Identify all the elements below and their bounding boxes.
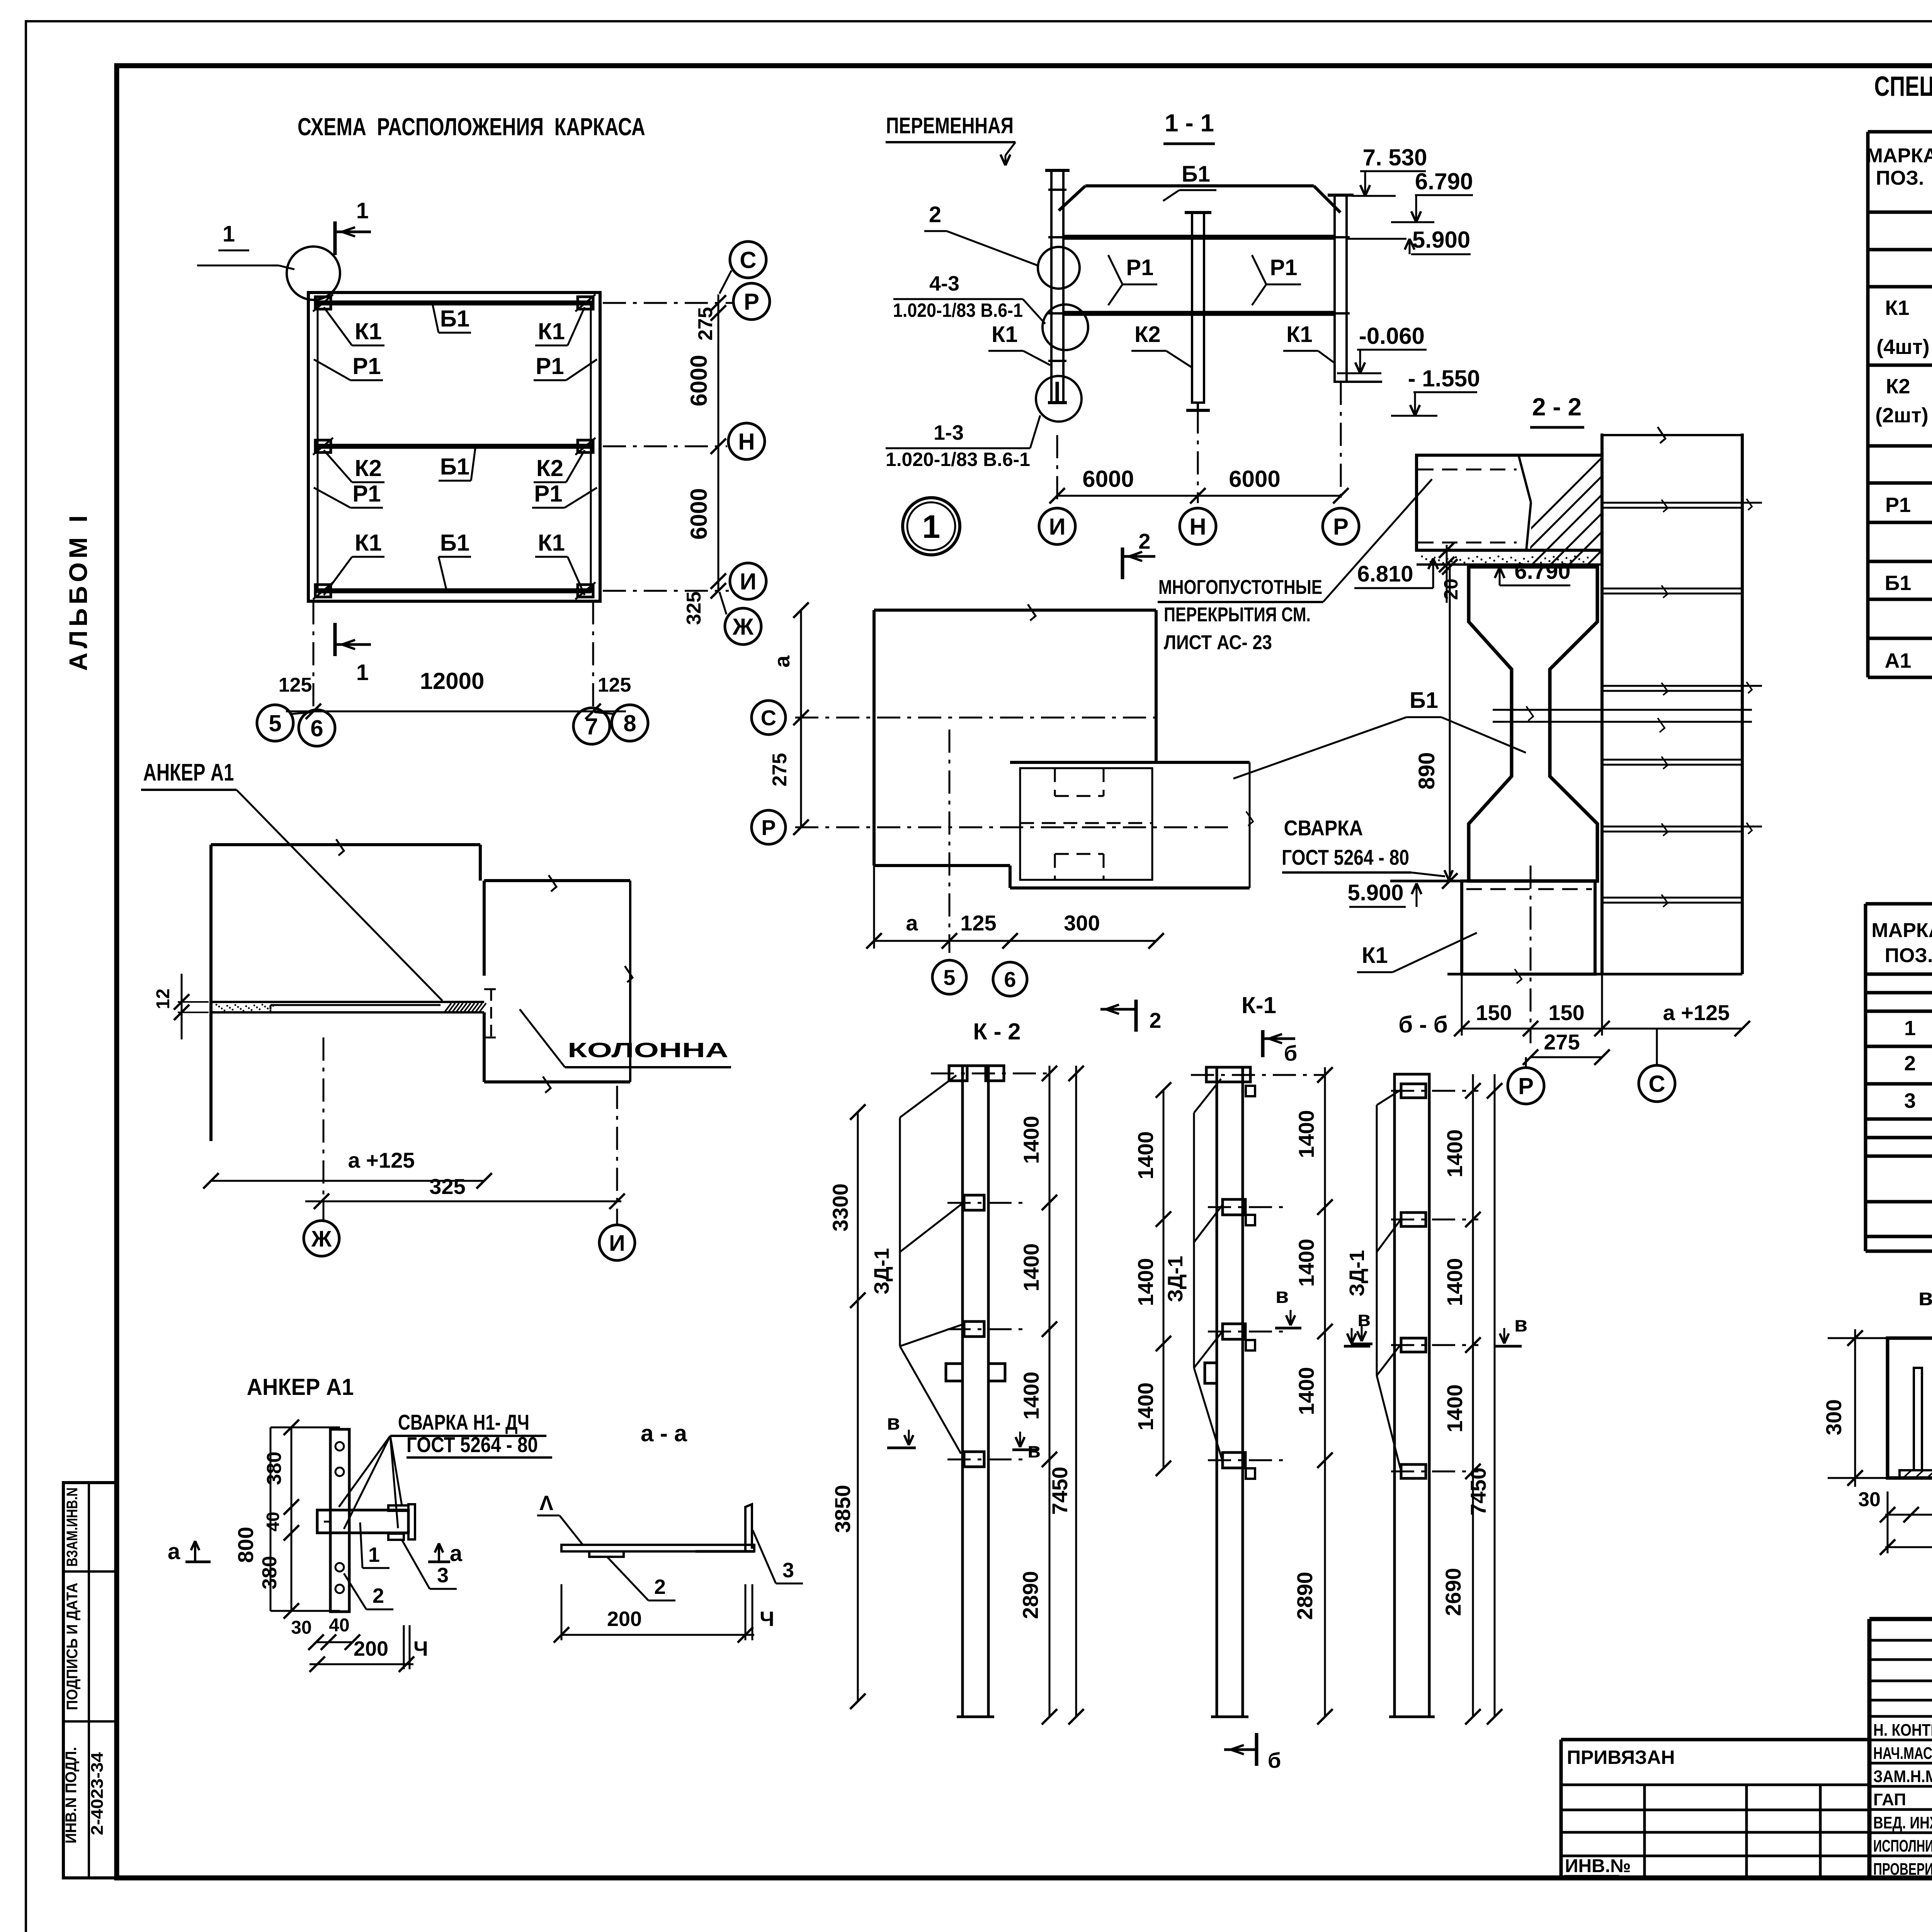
label b-b heading	[1398, 1012, 1447, 1037]
album label	[64, 512, 92, 671]
spec table header texts	[1866, 145, 1932, 201]
label K-1 heading	[1242, 992, 1276, 1018]
svg-text:Б1: Б1	[1885, 571, 1912, 595]
dim 20 vertical	[1439, 543, 1462, 603]
svg-text:Р1: Р1	[352, 353, 381, 379]
svg-text:СВАРКА Н1- ДЧ: СВАРКА Н1- ДЧ	[398, 1410, 529, 1434]
svg-text:ГАП: ГАП	[1873, 1790, 1906, 1809]
svg-text:3: 3	[1904, 1089, 1916, 1112]
svg-text:МАРКА,: МАРКА,	[1871, 919, 1932, 942]
svg-text:И: И	[609, 1231, 625, 1256]
wall in section 2-2	[1602, 427, 1762, 974]
svg-text:СВАРКА: СВАРКА	[1284, 816, 1363, 840]
axis circle P (section 1-1)	[1323, 508, 1359, 544]
axis circle H	[728, 423, 765, 459]
plan detail slab outline	[874, 604, 1156, 888]
column b-b bar	[1389, 1074, 1435, 1717]
svg-text:150: 150	[1476, 1000, 1512, 1025]
svg-text:1 - 1: 1 - 1	[1165, 109, 1214, 137]
svg-text:ПОЗ.: ПОЗ.	[1885, 944, 1932, 967]
svg-text:в: в	[887, 1410, 900, 1434]
plan right dimension chain	[683, 294, 726, 625]
svg-text:СХЕМА РАСПОЛОЖЕНИЯ КАРКАСА: СХЕМА РАСПОЛОЖЕНИЯ КАРКАСА	[298, 113, 645, 141]
svg-text:ЗД-1: ЗД-1	[1164, 1256, 1187, 1302]
horizontal break lines	[1493, 706, 1752, 732]
svg-text:К1: К1	[1362, 943, 1388, 968]
base line under section 2-2	[1447, 969, 1742, 983]
svg-text:А1: А1	[1884, 649, 1911, 672]
svg-text:4-3: 4-3	[929, 272, 959, 295]
axis circle 8	[594, 705, 648, 741]
column K2 axis H (section 1-1)	[1185, 213, 1211, 410]
svg-text:Р1: Р1	[1270, 255, 1298, 280]
section mark b lower	[1263, 1030, 1297, 1065]
axis circle H (section 1-1)	[1180, 508, 1216, 544]
svg-text:в: в	[1514, 1312, 1527, 1336]
svg-text:С: С	[1648, 1071, 1665, 1097]
plan detail axes	[795, 718, 1229, 953]
svg-text:8: 8	[623, 711, 636, 736]
K-2 left dims 3300/3850	[828, 1104, 866, 1709]
axis circle P (plan detail)	[752, 810, 786, 844]
svg-text:ПРОВЕРИЛ: ПРОВЕРИЛ	[1873, 1860, 1932, 1879]
K-2 right dims 1400s and 2890	[1018, 1066, 1057, 1725]
svg-text:К1: К1	[992, 322, 1018, 347]
v-v bottom plate (hatched)	[1900, 1470, 1932, 1478]
svg-text:К1: К1	[538, 318, 565, 344]
svg-text:(2шт): (2шт)	[1875, 404, 1928, 427]
svg-text:ПОЗ.: ПОЗ.	[1876, 167, 1924, 189]
signature rows text	[1873, 1719, 1932, 1879]
axis circle 6	[299, 710, 335, 746]
level 5.900 (section 2-2)	[1347, 880, 1469, 907]
column K1 axis P (section 1-1)	[1328, 195, 1354, 382]
svg-text:2: 2	[1904, 1052, 1916, 1075]
svg-text:1400: 1400	[1019, 1243, 1043, 1292]
svg-text:2: 2	[372, 1584, 384, 1607]
svg-text:а: а	[450, 1541, 463, 1566]
svg-text:К-1: К-1	[1242, 992, 1276, 1018]
svg-text:890: 890	[1414, 752, 1439, 790]
column (detail) outline	[484, 875, 633, 1093]
label R1 left	[1108, 255, 1157, 305]
svg-text:АНКЕР А1: АНКЕР А1	[143, 759, 234, 786]
a-a dim 200	[554, 1584, 774, 1643]
svg-text:(4шт): (4шт)	[1876, 335, 1929, 359]
svg-text:7450: 7450	[1466, 1468, 1490, 1516]
svg-text:Н: Н	[738, 429, 755, 455]
svg-text:2890: 2890	[1018, 1571, 1043, 1619]
section mark 1 bottom	[335, 623, 371, 685]
detail circle ref 1	[197, 221, 340, 300]
svg-text:в: в	[1357, 1306, 1371, 1331]
detail circles on column I	[1036, 247, 1088, 422]
hidden column outline (dashed)	[1020, 768, 1152, 880]
svg-text:125: 125	[598, 674, 631, 696]
svg-text:2: 2	[1149, 1008, 1161, 1032]
label Peremennaya (variable)	[886, 113, 1015, 165]
svg-text:1.020-1/83 В.6-1: 1.020-1/83 В.6-1	[893, 299, 1023, 321]
svg-text:6000: 6000	[1229, 466, 1280, 492]
svg-text:6.790: 6.790	[1514, 559, 1570, 584]
svg-text:а: а	[770, 655, 794, 668]
section v-v title	[1918, 1284, 1932, 1311]
column b-b embedded plates	[1391, 1084, 1478, 1478]
plan axis lines right	[603, 303, 732, 591]
svg-text:Б1: Б1	[1410, 688, 1438, 713]
axis circle 6 (plan detail)	[993, 962, 1027, 996]
svg-text:12: 12	[153, 988, 173, 1009]
plan bottom axis lines	[313, 601, 593, 713]
axis circle I (anchor detail)	[599, 1225, 635, 1260]
svg-text:К1: К1	[355, 318, 382, 344]
section a-a title	[641, 1420, 687, 1446]
svg-text:К2: К2	[536, 455, 563, 481]
v-v bottom dims	[1858, 1485, 1932, 1555]
svg-text:в: в	[1276, 1283, 1289, 1308]
svg-text:2: 2	[1138, 529, 1150, 553]
svg-text:7. 530: 7. 530	[1363, 145, 1427, 170]
anchor plate in joint	[211, 1002, 486, 1012]
svg-text:ПЕРЕКРЫТИЯ СМ.: ПЕРЕКРЫТИЯ СМ.	[1164, 604, 1311, 626]
svg-text:1400: 1400	[1133, 1258, 1158, 1306]
svg-text:ГОСТ 5264 - 80: ГОСТ 5264 - 80	[406, 1432, 538, 1457]
svg-text:КОЛОННА: КОЛОННА	[568, 1039, 728, 1062]
svg-text:Б1: Б1	[1182, 162, 1210, 187]
svg-text:5.900: 5.900	[1412, 227, 1470, 253]
svg-text:в - в: в - в	[1918, 1284, 1932, 1311]
b-b right dims 1400s 2690	[1441, 1074, 1481, 1725]
svg-text:325: 325	[429, 1174, 465, 1199]
svg-text:ПОДПИСЬ И ДАТА: ПОДПИСЬ И ДАТА	[64, 1583, 81, 1710]
axis circle I (section 1-1)	[1039, 508, 1075, 544]
welding note GOST 5264-80	[1282, 816, 1453, 879]
a-a plate	[561, 1545, 754, 1557]
svg-text:ЛИСТ АС- 23: ЛИСТ АС- 23	[1164, 631, 1272, 654]
svg-text:380: 380	[263, 1452, 286, 1485]
plan beam lines (thick)	[318, 303, 591, 591]
ref label 2	[924, 202, 1039, 266]
svg-text:200: 200	[354, 1637, 388, 1660]
svg-text:ПРИВЯЗАН: ПРИВЯЗАН	[1567, 1747, 1675, 1768]
plan element labels with leaders	[314, 305, 597, 595]
svg-text:1: 1	[368, 1543, 380, 1566]
svg-text:Р1: Р1	[1126, 255, 1154, 280]
svg-text:НАЧ.МАСТ.: НАЧ.МАСТ.	[1873, 1744, 1932, 1763]
svg-text:3: 3	[782, 1559, 794, 1582]
svg-text:ГОСТ 5264 - 80: ГОСТ 5264 - 80	[1282, 845, 1409, 869]
svg-text:К2: К2	[1134, 322, 1161, 347]
column K-1 left notch	[1205, 1363, 1217, 1383]
left sidebar stamp strip	[63, 1483, 117, 1878]
K-1 right dims 1400s and 2890	[1293, 1067, 1333, 1725]
svg-text:1400: 1400	[1442, 1384, 1467, 1433]
svg-text:300: 300	[1064, 911, 1100, 935]
axis circle Zh	[719, 592, 761, 645]
svg-text:1400: 1400	[1442, 1129, 1467, 1178]
label Kolonna	[520, 1009, 731, 1067]
beam B1 plan strip	[1010, 762, 1253, 888]
svg-text:а +125: а +125	[348, 1148, 415, 1172]
svg-text:МАРКА: МАРКА	[1866, 145, 1932, 167]
svg-text:1400: 1400	[1442, 1258, 1467, 1306]
section a markers (anchor detail)	[168, 1539, 463, 1566]
svg-text:125: 125	[960, 911, 996, 935]
K-2 dim 7450	[1048, 1066, 1084, 1725]
anchor A1 detail title	[247, 1374, 354, 1400]
svg-text:а: а	[168, 1539, 180, 1564]
label ZD-1 (b-b)	[1345, 1090, 1401, 1468]
rigel lines R1 (section 1-1)	[1063, 237, 1335, 313]
axis circle C	[719, 241, 766, 294]
svg-text:К1: К1	[355, 530, 382, 556]
svg-text:б - б: б - б	[1398, 1012, 1447, 1037]
svg-text:Р1: Р1	[536, 353, 564, 379]
specification table title	[1874, 71, 1932, 102]
section 2-2 bottom dimensions	[1454, 974, 1750, 1065]
beam B1 (section 1-1)	[1059, 162, 1340, 213]
svg-text:а +125: а +125	[1663, 1000, 1730, 1025]
svg-text:1400: 1400	[1133, 1131, 1158, 1180]
spec table rows content	[1875, 222, 1932, 672]
plan outer walls	[308, 293, 600, 601]
svg-text:1400: 1400	[1019, 1372, 1043, 1420]
column K1 under beam (section 2-2)	[1462, 866, 1595, 1043]
anchor plate 2 (vertical)	[330, 1429, 349, 1612]
ref label 4-3	[893, 272, 1045, 324]
beam B1 I-profile (section 2-2)	[1469, 567, 1597, 881]
svg-text:ЗД-1: ЗД-1	[870, 1248, 893, 1294]
svg-text:1: 1	[223, 221, 235, 247]
floor slab in section 2-2	[1417, 455, 1602, 565]
axis circle 5	[257, 705, 312, 741]
svg-text:275: 275	[769, 753, 791, 787]
svg-text:5: 5	[943, 965, 955, 990]
svg-text:МНОГОПУСТОТНЫЕ: МНОГОПУСТОТНЫЕ	[1158, 576, 1322, 599]
specification table grid	[1868, 132, 1932, 677]
svg-text:Н: Н	[1189, 514, 1206, 540]
svg-text:200: 200	[607, 1607, 642, 1631]
svg-text:6000: 6000	[686, 488, 712, 539]
svg-text:К2: К2	[355, 455, 382, 481]
svg-text:Р1: Р1	[352, 481, 381, 507]
svg-text:20: 20	[1440, 578, 1462, 600]
section mark 1 top	[335, 198, 371, 255]
svg-text:30: 30	[1858, 1488, 1881, 1511]
v markers K-1	[1275, 1283, 1371, 1346]
axis circle 5 (plan detail)	[932, 960, 966, 994]
materials table grid	[1866, 904, 1932, 1251]
anchor detail dim 800	[233, 1427, 270, 1611]
svg-text:2-4023-34: 2-4023-34	[88, 1752, 107, 1835]
svg-text:1400: 1400	[1133, 1383, 1158, 1431]
svg-text:Ч: Ч	[760, 1607, 774, 1631]
svg-text:275: 275	[694, 307, 717, 341]
v-v anchor bars	[1914, 1368, 1932, 1470]
svg-text:ПЕРЕМЕННАЯ: ПЕРЕМЕННАЯ	[886, 113, 1014, 138]
svg-text:5.900: 5.900	[1347, 880, 1403, 905]
svg-text:Б1: Б1	[440, 454, 470, 480]
svg-text:С: С	[761, 706, 776, 730]
svg-text:Р: Р	[761, 815, 776, 840]
svg-text:К2: К2	[1886, 375, 1910, 398]
column K1 axis I (section 1-1)	[1045, 170, 1070, 403]
svg-text:Р: Р	[1333, 514, 1349, 540]
svg-text:125: 125	[279, 674, 312, 696]
svg-text:800: 800	[233, 1527, 258, 1563]
dim a+125 (anchor detail)	[203, 1148, 492, 1189]
axis circle C (plan detail)	[752, 701, 786, 735]
svg-text:Р1: Р1	[1885, 493, 1911, 517]
axis circle P (section 2-2)	[1508, 1057, 1544, 1104]
a-a item labels 2 3	[607, 1530, 803, 1600]
axis circle Zh (anchor detail)	[304, 1221, 339, 1256]
svg-text:Ж: Ж	[732, 614, 754, 640]
svg-text:2 - 2: 2 - 2	[1532, 393, 1582, 421]
svg-text:СПЕЦИФИКАЦИЯ К СХЕМЕ ЭЛЕМЕН: СПЕЦИФИКАЦИЯ К СХЕМЕ ЭЛЕМЕНТОВ КАРКАСА З…	[1874, 71, 1932, 102]
svg-text:К1: К1	[1885, 296, 1910, 320]
dim 890	[1414, 559, 1458, 889]
svg-text:6000: 6000	[1082, 466, 1134, 492]
svg-text:2: 2	[929, 202, 941, 227]
label B1 (section 2-2)	[1233, 688, 1526, 779]
plan column marks	[313, 294, 595, 599]
section mark b (below K-1)	[1224, 1733, 1281, 1772]
materials table header texts	[1871, 919, 1932, 967]
anchor A1 label (wall detail)	[141, 759, 442, 1001]
svg-text:ЗАМ.Н.М.: ЗАМ.Н.М.	[1873, 1767, 1932, 1786]
column K-2 bar	[957, 1066, 994, 1717]
mortar joint dotted strip	[1421, 555, 1588, 564]
svg-text:1.020-1/83 В.6-1: 1.020-1/83 В.6-1	[886, 449, 1030, 470]
svg-text:300: 300	[1821, 1399, 1846, 1435]
anchor detail left dims 380/40/380	[259, 1420, 340, 1619]
svg-text:40: 40	[263, 1512, 283, 1531]
svg-text:150: 150	[1548, 1000, 1584, 1025]
plan view title	[298, 113, 645, 141]
level 6.790 mark (section 2-2)	[1495, 559, 1570, 585]
level mark 5.900	[1347, 227, 1471, 254]
svg-text:2690: 2690	[1441, 1568, 1465, 1616]
svg-text:3850: 3850	[830, 1485, 855, 1533]
level mark -0.060	[1337, 323, 1427, 382]
level 6.810 mark	[1354, 558, 1438, 588]
hatch of wall bearing zone	[1488, 448, 1815, 572]
svg-text:1400: 1400	[1019, 1116, 1043, 1164]
svg-text:И: И	[1049, 514, 1065, 540]
svg-text:1-3: 1-3	[934, 421, 964, 444]
svg-text:5: 5	[269, 711, 281, 736]
anchor plate 1 (horizontal)	[317, 1510, 408, 1533]
axis circle C (section 2-2)	[1639, 1029, 1675, 1102]
wall panel (detail)	[211, 839, 480, 1141]
hollow-core slab note	[1158, 479, 1432, 654]
label K1 (section 2-2)	[1357, 933, 1477, 972]
svg-text:-0.060: -0.060	[1359, 323, 1425, 349]
svg-text:ИНВ.N ПОДЛ.: ИНВ.N ПОДЛ.	[63, 1747, 80, 1844]
plan detail left dims	[769, 602, 809, 835]
svg-text:40: 40	[329, 1615, 349, 1636]
dim 325 (anchor detail)	[305, 1174, 625, 1209]
welding note N1-D4	[339, 1410, 552, 1529]
K-1 left dims 1400s	[1133, 1082, 1171, 1476]
materials table rows content	[1904, 1009, 1932, 1118]
section 2-2 title	[1530, 393, 1584, 427]
level mark -1.550	[1391, 366, 1480, 416]
v-v dim 300 vertical	[1821, 1329, 1893, 1487]
a-a angle	[696, 1504, 754, 1551]
svg-text:7450: 7450	[1048, 1467, 1072, 1515]
labels K1 K2 K1 (section 1-1)	[988, 322, 1334, 367]
svg-text:И: И	[740, 569, 756, 595]
svg-text:275: 275	[1544, 1030, 1580, 1054]
svg-text:Ч: Ч	[413, 1637, 428, 1660]
column K-2 side plates	[947, 1195, 1028, 1467]
svg-text:3: 3	[437, 1564, 449, 1587]
column K-1 right tabs	[1246, 1086, 1255, 1479]
svg-text:ВЕД. ИНЖ: ВЕД. ИНЖ	[1873, 1813, 1932, 1832]
hidden anchor in column (dashed)	[484, 989, 498, 1037]
level mark 6.790	[1391, 168, 1473, 222]
svg-text:ЗД-1: ЗД-1	[1345, 1250, 1369, 1296]
svg-text:7: 7	[585, 714, 598, 740]
svg-text:Н. КОНТР.: Н. КОНТР.	[1873, 1721, 1932, 1740]
column K-1 side plates	[1208, 1199, 1288, 1468]
anchor detail axes	[323, 1037, 617, 1225]
svg-text:6000: 6000	[686, 355, 712, 406]
svg-text:АЛЬБОМ I: АЛЬБОМ I	[64, 512, 92, 671]
label K-2 heading	[973, 1019, 1020, 1044]
svg-text:Λ: Λ	[539, 1492, 553, 1515]
svg-text:1: 1	[356, 198, 369, 223]
axis circle I	[730, 563, 766, 599]
anchor detail bottom dims	[291, 1615, 428, 1672]
scheme number circle 1	[903, 498, 960, 555]
section 1-1 title	[1163, 109, 1215, 144]
label ZD-1 (K-1)	[1164, 1079, 1223, 1459]
svg-text:2: 2	[654, 1575, 666, 1599]
svg-text:1400: 1400	[1294, 1110, 1318, 1158]
svg-text:6: 6	[310, 716, 323, 742]
svg-text:Б1: Б1	[440, 530, 470, 556]
svg-text:б: б	[1268, 1748, 1281, 1772]
svg-text:1: 1	[922, 509, 940, 545]
section mark 2 upper	[1122, 529, 1155, 579]
v-v column outline	[1888, 1338, 1932, 1478]
attachment table (left of stamp)	[1561, 1740, 1869, 1878]
label R1 right	[1252, 255, 1301, 305]
axis circle 7	[573, 708, 610, 744]
svg-text:1400: 1400	[1294, 1367, 1318, 1415]
section mark 2 lower	[1100, 1000, 1162, 1032]
dim 12 (plate thickness)	[153, 974, 209, 1039]
column K-1 bar	[1211, 1067, 1248, 1717]
svg-text:2890: 2890	[1293, 1572, 1317, 1620]
svg-text:ВЗАМ.ИНВ.N: ВЗАМ.ИНВ.N	[64, 1488, 81, 1567]
plan detail bottom dims	[866, 866, 1164, 949]
svg-text:1400: 1400	[1294, 1239, 1318, 1287]
svg-text:ИНВ.№: ИНВ.№	[1565, 1856, 1631, 1876]
v markers K-2	[887, 1410, 1041, 1462]
svg-text:К1: К1	[538, 530, 565, 556]
svg-text:3300: 3300	[828, 1184, 852, 1232]
svg-text:1: 1	[1904, 1017, 1916, 1040]
svg-text:325: 325	[683, 592, 705, 625]
label ZD-1 (K-2)	[870, 1075, 962, 1454]
svg-text:30: 30	[291, 1617, 311, 1638]
svg-text:ИСПОЛНИЛ: ИСПОЛНИЛ	[1873, 1837, 1932, 1855]
anchor angle 3	[388, 1504, 415, 1540]
